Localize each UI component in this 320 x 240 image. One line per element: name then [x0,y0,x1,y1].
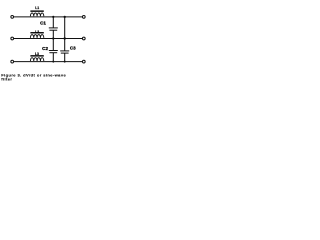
svg-text:filter: filter [1,77,12,82]
svg-text:L1: L1 [35,6,39,10]
svg-text:L3: L3 [35,52,39,56]
svg-text:C3: C3 [70,45,76,50]
svg-text:C2: C2 [42,46,48,51]
svg-text:C1: C1 [40,21,46,26]
svg-text:L2: L2 [35,30,39,34]
